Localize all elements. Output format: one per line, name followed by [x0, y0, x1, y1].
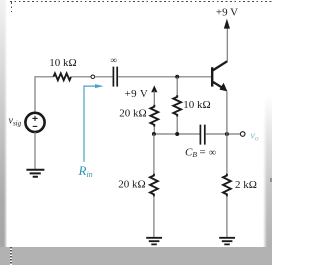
- wire: collector up to +9V arrow: [226, 28, 228, 62]
- transistor Q1 base bar: [211, 67, 213, 86]
- right page-edge grey strip: [263, 95, 272, 248]
- wire: input node to capacitor C1: [95, 76, 113, 78]
- node: output open terminal: [240, 132, 245, 137]
- capacitor C1 (infinite coupling cap) plates: [113, 67, 117, 87]
- svg-text:CB=∞: CB=∞: [185, 147, 216, 159]
- wire: capacitor C1 to base of transistor: [118, 76, 211, 78]
- stray mark right edge: [270, 178, 273, 183]
- node junction dot at 10k/rail: [175, 132, 179, 136]
- svg-text:10 kΩ: 10 kΩ: [49, 57, 76, 69]
- ground (bias divider): [146, 238, 162, 245]
- node junction dot at 20k/rail: [152, 132, 156, 136]
- source vsig circle: [25, 113, 44, 132]
- svg-text:∞: ∞: [110, 55, 116, 65]
- transistor Q1 emitter stroke with arrow: [213, 82, 223, 88]
- wire: lower 20k to ground: [153, 196, 155, 237]
- resistor 2 kOhm emitter: [223, 174, 231, 197]
- svg-text:+9 V: +9 V: [216, 6, 238, 18]
- wire: upper 20k bottom to bottom rail node: [153, 127, 155, 134]
- ground (emitter): [219, 238, 235, 245]
- top dashed marquee line: [10, 1, 272, 2]
- svg-text:+9 V: +9 V: [125, 88, 149, 100]
- wire: 2 kOhm to ground: [226, 196, 228, 237]
- wire: CB to emitter node: [206, 133, 241, 135]
- power +9 V supply arrow (collector): [224, 19, 230, 29]
- svg-text:vsig: vsig: [9, 115, 22, 127]
- wire: bottom rail from 20k node to capacitor CB: [154, 133, 199, 135]
- wire: source bottom to ground: [34, 132, 36, 169]
- wire: rail node down to lower 20 kOhm: [153, 134, 155, 174]
- svg-text:vo: vo: [250, 130, 258, 142]
- node junction dot at base rail / bias divider tap: [175, 75, 179, 79]
- capacitor CB (bypass) plates: [200, 125, 204, 145]
- left dotted marquee fragment on grey (bottom-left): [10, 247, 11, 265]
- resistor 20 kOhm upper bias: [150, 105, 158, 127]
- wire: 10 kOhm bottom to bottom rail: [176, 117, 178, 134]
- resistor 10 kOhm bias (vertical): [173, 95, 181, 117]
- node: input open terminal: [91, 75, 95, 79]
- power +9 V supply arrow over 20 kOhm resistor: [151, 85, 157, 92]
- source minus sign: [33, 125, 38, 127]
- left dashed marquee fragment (top-left): [11, 2, 12, 12]
- bottom grey band: [0, 247, 272, 265]
- ground (source): [26, 170, 44, 177]
- source plus sign: [32, 116, 37, 121]
- node junction dot emitter/rail: [225, 132, 229, 136]
- wire: top rail from source corner to series resistor: [35, 77, 54, 112]
- svg-text:2 kΩ: 2 kΩ: [235, 179, 257, 191]
- svg-text:10 kΩ: 10 kΩ: [183, 99, 210, 111]
- wire: base rail tap down to 10 kOhm: [176, 77, 178, 95]
- wire: resistor to input node: [71, 76, 91, 78]
- Rin indicator arrow (teal): [84, 86, 96, 162]
- wire: emitter arrow to emitter node: [226, 91, 228, 134]
- svg-text:Rin: Rin: [78, 163, 93, 179]
- transistor Q1 collector stroke: [213, 61, 228, 70]
- left page-edge grey strip: [0, 0, 7, 248]
- resistor 10 kOhm series (horizontal zigzag): [54, 73, 72, 80]
- svg-text:20 kΩ: 20 kΩ: [118, 179, 145, 191]
- resistor 20 kOhm lower bias: [150, 174, 158, 197]
- wire: emitter node down to 2 kOhm: [226, 134, 228, 174]
- svg-text:20 kΩ: 20 kΩ: [119, 108, 146, 120]
